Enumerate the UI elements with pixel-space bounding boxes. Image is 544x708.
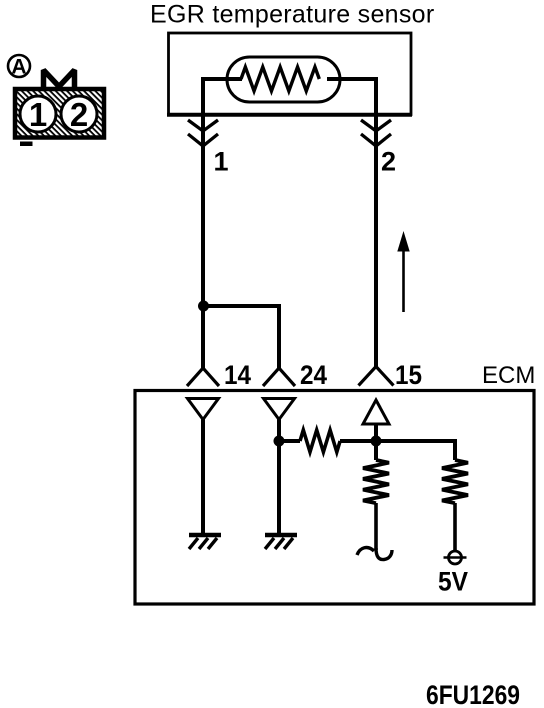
resistor R1 (horizontal) [300,430,340,452]
svg-text:2: 2 [381,147,396,177]
sensor thermistor zigzag [241,67,319,91]
wire: branch from junction to ECM terminal 24 [203,306,279,368]
wire: sensor pin 2 down to ECM terminal 15 [327,79,376,368]
wire: triangle 24 to ground [277,420,281,535]
terminal fork 24 [263,368,295,386]
ECM box [135,391,534,605]
junction node on wire 1 [198,301,209,312]
terminal fork 15 [359,367,394,386]
svg-text:ECM: ECM [482,362,535,389]
ECM terminal triangle 14 [188,399,219,420]
wire: R3 to 5V terminal [453,503,457,551]
ECM terminal triangle 15 (up) [363,400,389,424]
sensor box [169,33,412,115]
continuation squiggle [357,548,392,560]
wire: sensor pin 1 down to ECM terminal 14 [203,79,242,368]
5V terminal circle [444,551,467,564]
wire: triangle 14 to ground [201,420,205,535]
svg-text:6FU1269: 6FU1269 [426,680,520,708]
svg-text:15: 15 [395,360,422,390]
svg-text:EGR temperature sensor: EGR temperature sensor [150,1,435,29]
svg-text:5V: 5V [438,567,468,597]
connector A body (hatched) [15,89,104,138]
junction dot at terminal 15 [371,436,382,447]
wire: triangle 15 down to junction [374,424,378,441]
signal direction arrow [397,231,409,312]
resistor R3 (vertical, right branch) [442,460,468,503]
wire: junction 15 to right branch [376,441,455,460]
ECM terminal triangle 24 [264,399,295,420]
connector A latch [44,70,75,89]
wire: 24 junction to resistor R1 [279,439,300,443]
svg-text:A: A [11,56,26,79]
connector A pin 1 [20,96,56,133]
svg-text:24: 24 [300,360,327,390]
junction dot at terminal 24 [274,436,285,447]
svg-text:1: 1 [214,147,229,177]
scan blob under connector body [20,142,33,147]
ground G2 [265,535,297,549]
svg-text:2: 2 [70,96,88,133]
wire: R2 to continuation squiggle [374,503,378,550]
resistor R2 (vertical, below 15 junction) [374,441,378,460]
terminal fork 14 [187,368,219,386]
wire: R1 to 15 junction [340,439,376,443]
sensor element capsule [227,57,340,102]
sensor box bottom edge [167,113,412,117]
connector chevrons on wire 1 [188,120,218,146]
connector A label circle [8,55,30,79]
svg-text:14: 14 [224,360,251,390]
connector A pin 2 [61,96,97,133]
ground G1 [189,535,221,549]
connector chevrons on wire 2 [361,120,391,146]
svg-text:1: 1 [29,96,47,133]
